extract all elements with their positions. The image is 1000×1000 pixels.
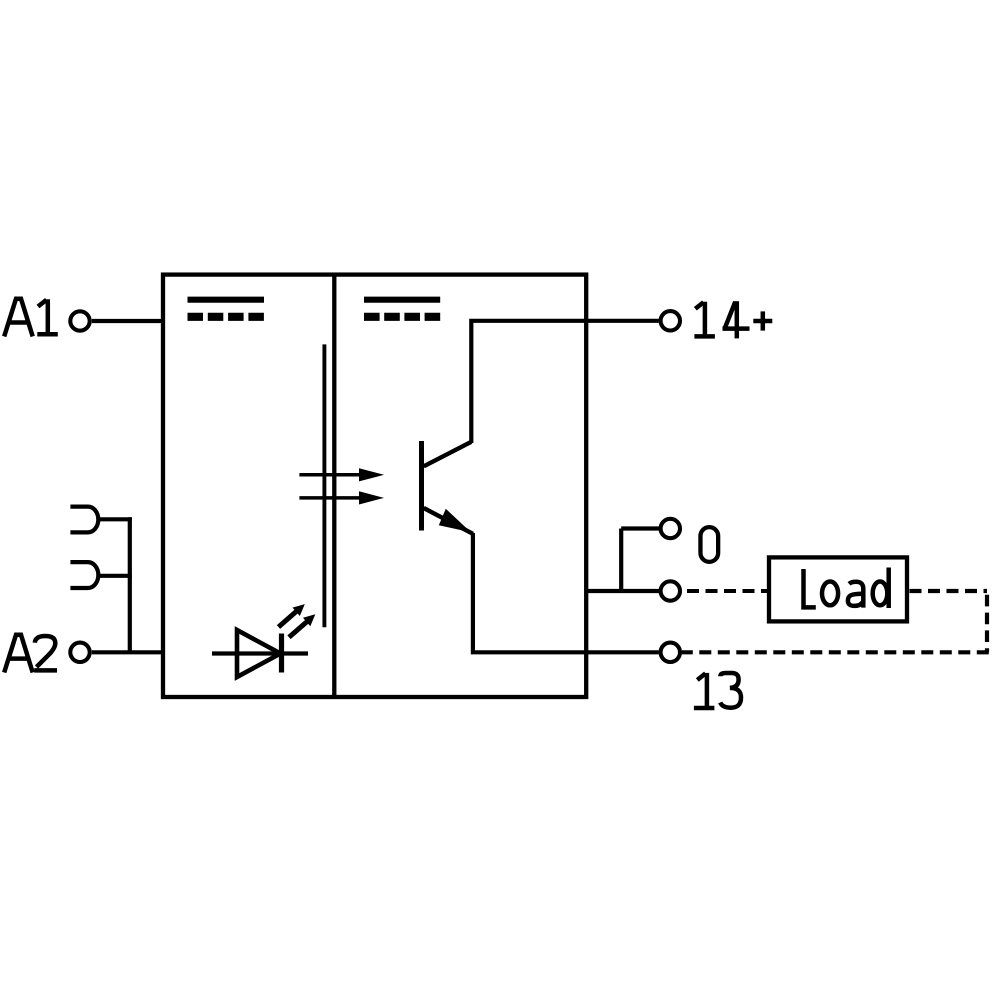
LED D1 triangle	[237, 630, 281, 677]
dashed wire corner to 13 terminal	[682, 650, 989, 654]
fork contact upper	[70, 507, 98, 533]
label A1	[4, 299, 58, 337]
terminal 0 circle	[661, 519, 680, 538]
optocoupler light arrow 1	[299, 468, 384, 481]
label 14+	[694, 301, 772, 338]
dashed wire middle terminal to Load	[682, 589, 769, 593]
wire fork bus vertical	[128, 517, 132, 652]
LED emission arrow 1	[279, 604, 305, 627]
dashed wire Load to right corner	[907, 589, 987, 593]
wire bracket vertical	[619, 529, 623, 594]
wire A2 to box	[92, 650, 165, 654]
DC supply symbol left: solid bar	[188, 297, 265, 303]
terminal middle circle	[661, 581, 680, 600]
isolation barrier line	[322, 344, 326, 627]
dashed wire right vertical	[985, 592, 989, 653]
terminal A1 circle	[70, 311, 89, 330]
label 13	[694, 673, 741, 710]
wire fork lower to bus	[98, 574, 132, 578]
Load box	[769, 557, 907, 621]
LED D1 cathode bar	[279, 634, 284, 673]
DC supply symbol left: dashed bar	[188, 313, 265, 321]
DC supply symbol right: solid bar	[364, 297, 440, 303]
label 0	[700, 527, 718, 562]
LED emission arrow 2	[289, 614, 315, 637]
terminal 14+ circle	[661, 311, 680, 330]
phototransistor Q1 collector diagonal	[424, 442, 472, 467]
wire box to middle terminal	[586, 589, 659, 593]
wire fork upper to bus	[98, 517, 132, 521]
wire collector to 14+ terminal	[471, 321, 659, 443]
optocoupler internal divider	[332, 273, 336, 700]
DC supply symbol right: dashed bar	[364, 313, 440, 321]
wire bracket to 0 terminal	[621, 526, 659, 530]
phototransistor Q1 base bar	[419, 441, 424, 531]
optocoupler light arrow 2	[299, 491, 384, 504]
optocoupler box U1 outline	[163, 275, 586, 697]
phototransistor Q1 emitter diagonal	[424, 508, 473, 534]
terminal 13 circle	[661, 643, 680, 662]
wire emitter to 13 terminal	[473, 533, 659, 652]
wire A1 to box	[92, 319, 165, 323]
terminal A2 circle	[70, 643, 89, 662]
label Load	[804, 568, 889, 609]
label A2	[4, 635, 57, 673]
phototransistor Q1 emitter arrowhead	[439, 509, 471, 533]
fork contact lower	[70, 562, 98, 588]
LED D1 anode wire	[212, 651, 308, 655]
